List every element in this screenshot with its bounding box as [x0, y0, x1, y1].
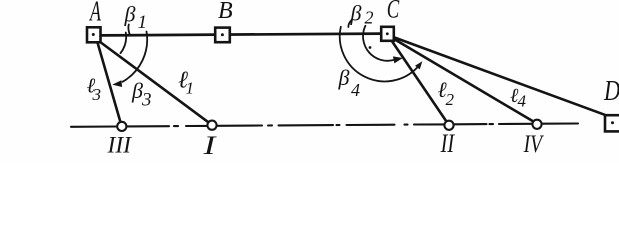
svg-text:III: III	[107, 133, 133, 159]
svg-text:β: β	[338, 65, 350, 90]
svg-text:β: β	[350, 1, 362, 26]
svg-text:4: 4	[351, 80, 360, 100]
svg-text:2: 2	[446, 90, 455, 109]
svg-text:2: 2	[365, 8, 374, 28]
svg-text:II: II	[440, 130, 455, 159]
svg-text:B: B	[218, 0, 233, 24]
svg-text:3: 3	[141, 90, 152, 111]
svg-text:IV: IV	[523, 130, 544, 158]
svg-text:1: 1	[186, 79, 195, 98]
svg-text:3: 3	[92, 85, 102, 104]
svg-text:1: 1	[138, 12, 148, 33]
svg-text:D: D	[603, 76, 619, 107]
svg-text:C: C	[387, 0, 400, 23]
svg-text:4: 4	[518, 92, 527, 111]
svg-text:A: A	[88, 0, 101, 28]
svg-text:I: I	[202, 130, 217, 159]
svg-text:β: β	[124, 2, 136, 27]
